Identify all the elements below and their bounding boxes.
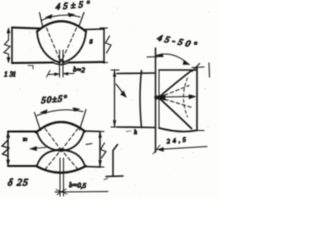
svg-text:b=0,5: b=0,5 <box>69 181 87 190</box>
svg-text:50±5°: 50±5° <box>41 93 68 105</box>
svg-text:δ 25: δ 25 <box>7 178 29 189</box>
svg-text:b=2: b=2 <box>73 66 86 75</box>
svg-text:s: s <box>90 37 93 46</box>
svg-text:24,5: 24,5 <box>166 136 188 145</box>
svg-text:1 3i: 1 3i <box>4 70 15 79</box>
svg-text:h: h <box>134 130 137 136</box>
svg-text:45-50°: 45-50° <box>156 33 201 51</box>
svg-text:ю: ю <box>23 137 28 143</box>
svg-text:45±5°: 45±5° <box>56 0 93 12</box>
